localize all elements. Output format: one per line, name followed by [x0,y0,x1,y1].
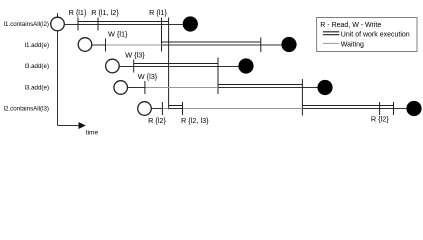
svg-text:W {l3}: W {l3} [138,72,158,81]
svg-text:Unit of work execution: Unit of work execution [341,32,410,39]
svg-text:l3.add(e): l3.add(e) [25,63,49,70]
svg-text:l1.containsAll(l2): l1.containsAll(l2) [4,21,49,28]
svg-text:R - Read, W - Write: R - Read, W - Write [320,22,381,29]
svg-text:l3.add(e): l3.add(e) [25,85,49,92]
svg-text:R {l2, l3}: R {l2, l3} [181,116,209,125]
svg-text:Waiting: Waiting [341,42,364,49]
svg-text:R {l2}: R {l2} [371,115,389,124]
svg-text:W {l3}: W {l3} [125,51,145,60]
svg-text:R {l1}: R {l1} [149,8,167,17]
svg-text:l1.add(e): l1.add(e) [25,42,49,49]
svg-text:time: time [86,130,99,137]
svg-text:R {l1, l2}: R {l1, l2} [91,8,119,17]
svg-text:W {l1}: W {l1} [108,30,128,39]
svg-text:R {l1}: R {l1} [69,8,87,17]
svg-text:l2.containsAll(l3): l2.containsAll(l3) [4,106,49,113]
svg-text:R {l2}: R {l2} [148,116,166,125]
